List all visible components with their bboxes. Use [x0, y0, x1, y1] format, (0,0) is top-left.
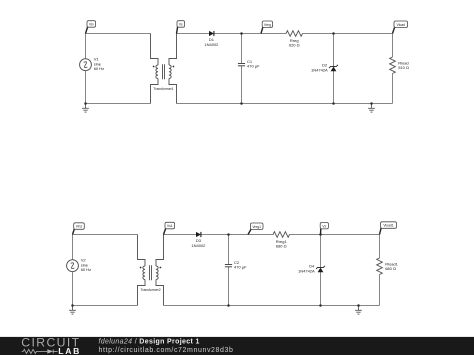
svg-text:1N4002: 1N4002 [191, 243, 206, 248]
wire secondary bottom 4 [359, 305, 380, 307]
resistor Rload [390, 57, 396, 74]
wire secondary bottom 4 [372, 103, 393, 105]
wire diode to cap node [201, 234, 229, 236]
node label Vreg1 [248, 223, 263, 235]
wire cap top lead [241, 34, 243, 64]
svg-text:Vin: Vin [89, 23, 94, 27]
zener diode D4 [316, 266, 325, 272]
junction cap top [240, 32, 243, 35]
svg-text:http://circuitlab.com/c72mnunv: http://circuitlab.com/c72mnunv28d3b [99, 347, 234, 354]
resistor Rreg1 [273, 232, 290, 238]
junction ground [357, 304, 360, 307]
svg-text:fdeluna24 / Design Project 1: fdeluna24 / Design Project 1 [99, 338, 200, 345]
node label Vreg [261, 21, 273, 34]
wire cap bottom lead [228, 267, 230, 306]
wire cap bottom lead [241, 66, 243, 104]
wire secondary bottom 3 [321, 305, 359, 307]
svg-text:1N4002: 1N4002 [204, 42, 219, 47]
wire source top lead [85, 33, 87, 59]
ground (output) [368, 104, 375, 113]
junction source/ground [71, 304, 74, 307]
wire secondary bottom 3 [334, 103, 372, 105]
wire zener bottom lead [333, 71, 335, 104]
svg-text:680 Ω: 680 Ω [385, 266, 396, 271]
CircuitLab logo circuit icon (resistor + diode) [22, 349, 58, 353]
footer bar [0, 337, 474, 355]
ground (source) [69, 306, 76, 315]
svg-text:Vz: Vz [322, 224, 326, 228]
wire primary bottom [86, 103, 151, 105]
transformer phase dot (secondary) [160, 267, 162, 269]
svg-text:60 Hz: 60 Hz [81, 267, 91, 272]
wire zener top lead [320, 235, 322, 268]
svg-text:Vreg1: Vreg1 [252, 225, 261, 229]
ground (source) [82, 104, 89, 113]
value label D1 1N4002 [204, 37, 219, 47]
value label D3 1N4002 [191, 238, 206, 248]
wire zener node to load [334, 33, 393, 35]
value label V2 sine 60 Hz [81, 258, 91, 272]
wire source top lead [72, 234, 74, 260]
svg-text:Transformer2: Transformer2 [140, 288, 160, 292]
wire zener node to load [321, 234, 380, 236]
svg-text:620 Ω: 620 Ω [289, 43, 300, 48]
wire Rreg to zener node [303, 33, 334, 35]
wire source bottom lead [72, 271, 74, 305]
value label C1 470 µF [247, 59, 260, 69]
transformer phase dot (secondary) [173, 66, 175, 68]
svg-text:Vreg: Vreg [264, 23, 271, 27]
transformer phase dot (primary) [153, 66, 155, 68]
node label Vin [86, 21, 96, 34]
junction ground [370, 102, 373, 105]
resistor Rload1 [377, 258, 383, 275]
voltage source V1 (sine 60 Hz) [80, 59, 92, 71]
svg-text:470 µF: 470 µF [247, 64, 260, 69]
capacitor C1 [238, 64, 245, 66]
wire load bottom lead [392, 74, 394, 104]
voltage source V2 (sine 60 Hz) [67, 260, 79, 272]
svg-text:680 Ω: 680 Ω [276, 244, 287, 249]
resistor Rreg [286, 31, 303, 37]
wire primary top [73, 234, 138, 236]
zener diode D2 [329, 65, 338, 71]
wire zener top lead [333, 34, 335, 67]
svg-text:60 Hz: 60 Hz [94, 66, 104, 71]
node label Vz [320, 222, 328, 234]
value label V1 sine 60 Hz [94, 57, 104, 71]
value label Rload 510 Ω [398, 60, 409, 70]
svg-text:Vin1: Vin1 [76, 225, 83, 229]
junction cap bottom [240, 102, 243, 105]
junction cap top [227, 233, 230, 236]
value label Rload1 680 Ω [385, 261, 398, 271]
svg-text:510 Ω: 510 Ω [398, 65, 409, 70]
wire secondary bottom 2 [242, 103, 334, 105]
svg-text:470 µF: 470 µF [234, 265, 247, 270]
node label Vs [177, 21, 185, 34]
transformer Transformer2 [138, 235, 164, 306]
junction zener bottom [319, 304, 322, 307]
wire load top lead [379, 234, 381, 258]
junction zener bottom [332, 102, 335, 105]
svg-text:Vs: Vs [179, 23, 183, 27]
svg-text:1N4742A: 1N4742A [298, 268, 315, 273]
diode D3 [196, 232, 201, 237]
wire Rreg to zener node [290, 234, 321, 236]
wire load top lead [392, 33, 394, 57]
value label C2 470 µF [234, 260, 247, 270]
value label D2 1N4742A [311, 62, 328, 72]
node label Vload [393, 21, 408, 34]
ground (output) [355, 306, 362, 315]
wire cap node to Rreg [229, 234, 274, 236]
wire cap node to Rreg [242, 33, 287, 35]
wire primary top [86, 33, 151, 35]
node label Vin1 [73, 223, 85, 235]
svg-text:1N4742A: 1N4742A [311, 67, 328, 72]
svg-text:Vs1: Vs1 [167, 224, 173, 228]
junction source/ground [84, 102, 87, 105]
value label Rreg1 680 Ω [276, 239, 288, 249]
wire cap top lead [228, 235, 230, 265]
wire secondary top to diode [177, 33, 210, 35]
svg-text:Transformer1: Transformer1 [153, 87, 173, 91]
node label Vload1 [380, 222, 397, 235]
wire diode to cap node [214, 33, 242, 35]
wire secondary bottom 1 [177, 103, 242, 105]
wire secondary top to diode [164, 234, 197, 236]
junction zener top [319, 233, 322, 236]
wire primary bottom [73, 305, 138, 307]
svg-text:Vload1: Vload1 [383, 224, 393, 228]
transformer phase dot (primary) [140, 267, 142, 269]
value label Rreg 620 Ω [289, 38, 300, 48]
wire source bottom lead [85, 70, 87, 103]
node label Vs1 [164, 222, 175, 234]
wire secondary bottom 2 [229, 305, 321, 307]
junction zener top [332, 32, 335, 35]
svg-text:Vload: Vload [397, 23, 406, 27]
wire secondary bottom 1 [164, 305, 229, 307]
wire zener bottom lead [320, 272, 322, 306]
capacitor C2 [225, 265, 232, 267]
svg-text:LAB: LAB [58, 346, 81, 355]
wire load bottom lead [379, 275, 381, 306]
junction cap bottom [227, 304, 230, 307]
transformer Transformer1 [151, 34, 177, 104]
value label D4 1N4742A [298, 263, 315, 273]
diode D1 [209, 31, 214, 36]
